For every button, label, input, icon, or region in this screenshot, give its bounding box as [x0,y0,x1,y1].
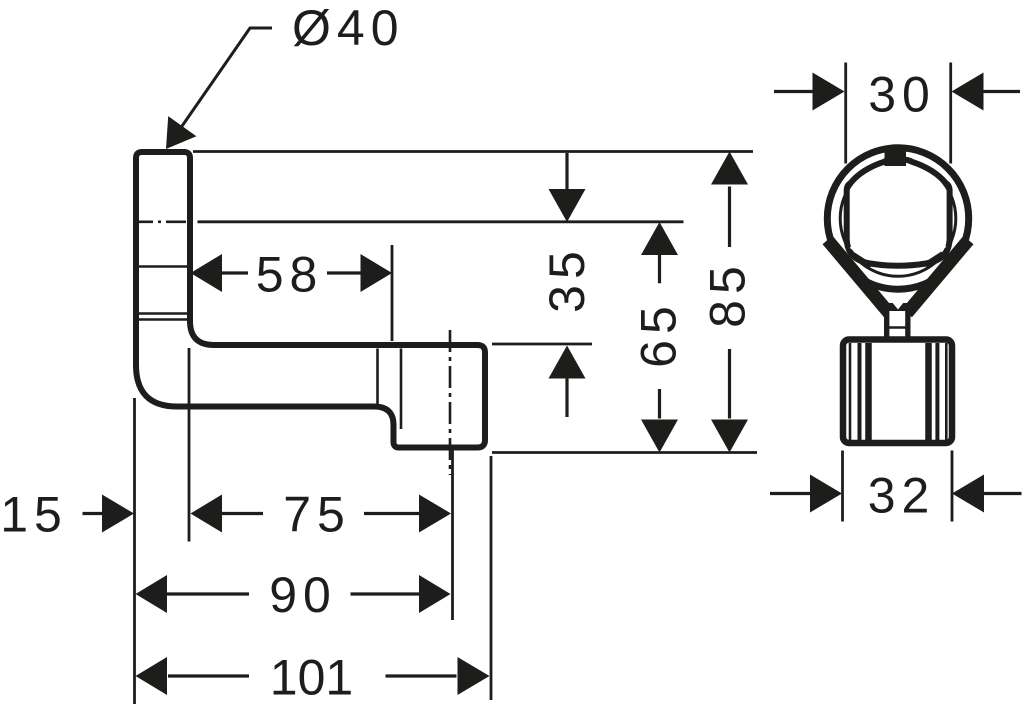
svg-text:65: 65 [631,300,687,368]
svg-text:75: 75 [283,487,351,543]
svg-text:58: 58 [256,247,324,303]
svg-text:90: 90 [269,567,337,623]
svg-text:101: 101 [270,649,353,705]
svg-text:35: 35 [539,245,595,313]
svg-text:32: 32 [868,468,936,524]
svg-text:Ø40: Ø40 [292,0,405,56]
svg-text:30: 30 [868,67,936,123]
svg-text:85: 85 [699,260,755,328]
svg-text:15: 15 [0,487,68,543]
